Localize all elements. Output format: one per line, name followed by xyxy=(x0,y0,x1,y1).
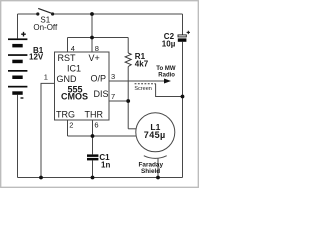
node junction GND/0V rail xyxy=(39,176,43,180)
node junction supply branch xyxy=(90,36,94,40)
wire top rail right segment xyxy=(53,13,183,15)
svg-text:4: 4 xyxy=(71,44,75,53)
node junction shield/0V rail xyxy=(156,176,160,180)
svg-text:7: 7 xyxy=(111,92,115,101)
svg-text:10µ: 10µ xyxy=(162,40,176,49)
svg-text:DIS: DIS xyxy=(94,89,109,99)
svg-text:6: 6 xyxy=(94,121,98,130)
wire L1 lower terminal run xyxy=(68,135,137,137)
svg-text:745µ: 745µ xyxy=(144,130,166,140)
svg-text:1n: 1n xyxy=(101,161,110,170)
resistor R1 xyxy=(125,52,148,68)
screen dashed line xyxy=(135,83,156,85)
svg-text:3: 3 xyxy=(111,72,115,81)
svg-text:GND: GND xyxy=(57,74,78,84)
label To MW Radio xyxy=(156,66,176,79)
wire pin 1 GND lead xyxy=(41,83,55,177)
svg-text:8: 8 xyxy=(95,44,99,53)
wire left rail bottom xyxy=(17,95,19,178)
battery B1 xyxy=(8,32,44,98)
svg-text:2: 2 xyxy=(69,121,73,130)
svg-text:V+: V+ xyxy=(89,53,100,63)
svg-text:THR: THR xyxy=(85,110,104,120)
node junction top rail xyxy=(90,12,94,16)
wire right rail below C2 xyxy=(182,42,184,178)
capacitor C1 xyxy=(87,153,110,170)
wire right rail above C2 xyxy=(182,14,184,35)
border frame xyxy=(1,1,199,188)
capacitor C2 xyxy=(162,31,190,49)
wire pin 4 lead xyxy=(67,38,69,53)
wire pin 2 lead xyxy=(67,120,69,136)
wire R1 bottom lead to L1 xyxy=(127,67,129,129)
node junction pin6/C1 xyxy=(91,134,95,138)
svg-text:4k7: 4k7 xyxy=(135,60,149,69)
svg-text:To MW: To MW xyxy=(156,66,176,72)
svg-text:O/P: O/P xyxy=(91,74,107,84)
wire pin 7 lead xyxy=(109,100,128,102)
svg-text:On-Off: On-Off xyxy=(33,23,58,32)
node junction C1/0V rail xyxy=(91,176,95,180)
faraday shield arc xyxy=(144,156,167,159)
wire supply branch to pins 4 8 and R1 xyxy=(68,37,129,39)
svg-text:CMOS: CMOS xyxy=(61,92,88,102)
svg-text:12V: 12V xyxy=(29,52,44,61)
IC1 pin labels xyxy=(56,53,109,120)
label Faraday Shield xyxy=(139,161,164,175)
wire pin 8 lead xyxy=(91,38,93,53)
wire L1 upper terminal xyxy=(128,128,136,130)
svg-text:TRG: TRG xyxy=(56,110,75,120)
wire pin 6 lead xyxy=(92,120,94,136)
wire screen to 0V rail xyxy=(156,84,183,97)
svg-text:Screen: Screen xyxy=(134,86,151,92)
node junction pin7/R1/L1 xyxy=(126,99,130,103)
wire V+ drop from top rail xyxy=(91,14,93,38)
wire C1 bottom lead xyxy=(92,160,94,177)
node junction screen/right rail xyxy=(181,95,185,99)
wire pin 3 output xyxy=(109,80,164,82)
wire left rail top (battery feed) xyxy=(17,14,19,38)
wire faraday shield tail xyxy=(157,158,159,177)
wire top rail left segment xyxy=(18,13,38,15)
output arrowhead to MW radio xyxy=(164,79,171,84)
inductor L1 coil xyxy=(136,113,175,152)
svg-text:RST: RST xyxy=(58,53,77,63)
op-amp/timer IC U1 body xyxy=(55,52,110,120)
svg-text:IC1: IC1 xyxy=(67,64,81,74)
svg-text:Shield: Shield xyxy=(141,168,160,175)
svg-text:Radio: Radio xyxy=(158,73,175,79)
wire C1 top lead xyxy=(92,136,94,154)
switch S1 xyxy=(33,8,58,32)
wire R1 top lead xyxy=(127,38,129,54)
svg-text:1: 1 xyxy=(44,73,48,82)
wire bottom rail xyxy=(18,177,183,179)
